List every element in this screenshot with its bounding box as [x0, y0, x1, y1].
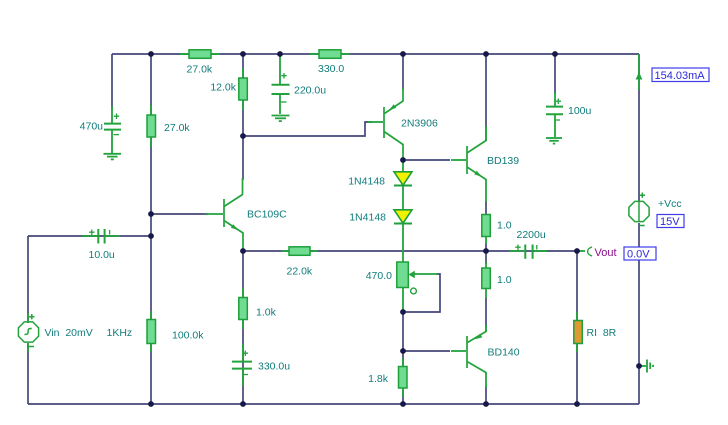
svg-text:330.0u: 330.0u	[258, 361, 290, 373]
svg-text:RI 8R: RI 8R	[587, 327, 617, 339]
svg-text:330.0: 330.0	[318, 63, 344, 75]
svg-text:1.0: 1.0	[497, 220, 512, 232]
svg-text:1N4148: 1N4148	[348, 176, 385, 188]
svg-text:1.8k: 1.8k	[368, 373, 389, 385]
svg-text:BD140: BD140	[488, 347, 520, 359]
svg-text:470u: 470u	[80, 121, 104, 133]
svg-text:1.0k: 1.0k	[256, 307, 277, 319]
svg-text:27.0k: 27.0k	[187, 64, 213, 76]
svg-text:1N4148: 1N4148	[349, 212, 386, 224]
svg-text:100u: 100u	[568, 105, 592, 117]
svg-text:27.0k: 27.0k	[164, 122, 190, 134]
svg-text:12.0k: 12.0k	[210, 82, 236, 94]
svg-text:1.0: 1.0	[497, 274, 512, 286]
svg-text:154.03mA: 154.03mA	[655, 70, 706, 82]
svg-text:100.0k: 100.0k	[172, 330, 204, 342]
svg-text:BD139: BD139	[487, 155, 519, 167]
svg-text:0.0V: 0.0V	[627, 249, 650, 261]
svg-text:22.0k: 22.0k	[287, 266, 313, 278]
svg-text:2N3906: 2N3906	[401, 118, 438, 130]
svg-text:+Vcc: +Vcc	[658, 198, 682, 210]
svg-text:BC109C: BC109C	[247, 209, 287, 221]
svg-text:220.0u: 220.0u	[294, 85, 326, 97]
svg-text:470.0: 470.0	[366, 270, 392, 282]
svg-text:Vout: Vout	[595, 247, 617, 259]
svg-text:Vin 20mV: Vin 20mV	[45, 327, 93, 339]
svg-text:10.0u: 10.0u	[89, 249, 115, 261]
svg-text:1KHz: 1KHz	[107, 327, 133, 339]
svg-text:15V: 15V	[660, 216, 680, 228]
svg-text:2200u: 2200u	[517, 229, 546, 241]
